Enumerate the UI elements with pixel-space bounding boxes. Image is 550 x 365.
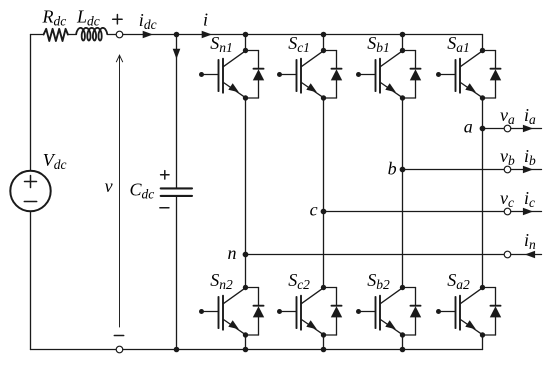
wire leg b middle [402, 98, 404, 288]
IGBT c1 emitter arrow [306, 83, 317, 92]
node emitter a2 [480, 332, 485, 337]
wire top-left corner to resistor [31, 34, 44, 36]
IGBT a1 gate bar [455, 60, 457, 91]
svg-text:n: n [228, 243, 237, 263]
current arrow i_b [523, 166, 533, 174]
IGBT b1 gate bar [375, 60, 377, 91]
IGBT b1 emitter lead [380, 82, 402, 97]
IGBT b1 gate wire [359, 74, 376, 76]
junction top bus / capacitor [174, 32, 180, 38]
wire leg c top stub [323, 35, 325, 51]
IGBT c2 gate terminal dot [277, 309, 282, 314]
node collector a1 [480, 48, 485, 53]
IGBT a2 gate terminal dot [436, 309, 441, 314]
svg-text:b: b [388, 159, 397, 179]
inductor L_dc [76, 28, 107, 41]
node emitter c1 [321, 95, 326, 100]
IGBT n1 gate terminal dot [199, 72, 204, 77]
IGBT c1 collector lead [301, 51, 323, 67]
junction bottom bus / capacitor [174, 347, 180, 353]
IGBT b1 collector lead [380, 51, 402, 67]
label + at dc terminal [113, 18, 122, 20]
IGBT a1 gate wire [439, 74, 456, 76]
diode wire n2 [246, 287, 259, 289]
node collector b2 [400, 285, 405, 290]
wire leg c middle [323, 98, 325, 288]
label - at capacitor [160, 207, 169, 209]
IGBT c1 gate bar [296, 60, 298, 91]
label + at capacitor [161, 174, 169, 176]
node emitter b2 [400, 332, 405, 337]
IGBT n2 gate terminal dot [199, 309, 204, 314]
diode c2 [331, 306, 342, 317]
node collector c2 [321, 285, 326, 290]
diode wire b2 [403, 287, 416, 289]
wire leg a bottom stub [482, 335, 484, 350]
current arrow i_a [523, 125, 533, 133]
svg-text:a: a [464, 117, 473, 137]
wire left rail lower [30, 211, 32, 349]
terminal n [504, 251, 511, 258]
IGBT n2 emitter lead [223, 319, 245, 334]
IGBT n2 collector lead [223, 288, 245, 304]
IGBT n1 body bar [222, 59, 224, 93]
IGBT a1 gate terminal dot [436, 72, 441, 77]
IGBT b1 emitter arrow [385, 83, 396, 92]
wire leg n top stub [245, 35, 247, 51]
diode b2 cathode bar [411, 305, 421, 307]
junction top bus / leg b [400, 32, 406, 38]
node emitter n1 [243, 95, 248, 100]
IGBT c1 emitter lead [301, 82, 323, 97]
svg-text:c: c [310, 200, 318, 220]
wire inductor to + terminal [107, 34, 116, 36]
IGBT c2 emitter lead [301, 319, 323, 334]
IGBT a2 collector lead [460, 288, 482, 304]
IGBT a1 emitter lead [460, 82, 482, 97]
voltage arrow v [119, 55, 121, 327]
IGBT c1 gate terminal dot [277, 72, 282, 77]
label - at dc minus terminal [114, 335, 123, 337]
node collector a2 [480, 285, 485, 290]
node collector n2 [243, 285, 248, 290]
diode n1 cathode bar [254, 68, 264, 70]
diode a2 cathode bar [491, 305, 501, 307]
current arrow i_n [525, 251, 535, 259]
IGBT a2 body bar [459, 296, 461, 330]
IGBT c2 body bar [300, 296, 302, 330]
wire leg a middle [482, 98, 484, 288]
wire leg b bottom stub [402, 335, 404, 350]
node emitter a1 [480, 95, 485, 100]
junction bottom bus / leg c [321, 347, 327, 353]
wire neutral output [246, 254, 505, 256]
wire phase a output [483, 128, 505, 130]
wire phase b terminal lead [511, 169, 542, 171]
wire capacitor branch upper [176, 35, 178, 188]
current arrow i_dc [143, 31, 153, 39]
junction bottom bus / leg b [400, 347, 406, 353]
current arrow i [202, 31, 212, 39]
IGBT a1 emitter arrow [465, 83, 476, 92]
terminal a [504, 125, 511, 132]
wire leg c bottom stub [323, 335, 325, 350]
node emitter c2 [321, 332, 326, 337]
diode c1 [331, 69, 342, 80]
IGBT b2 emitter lead [380, 319, 402, 334]
IGBT n1 emitter arrow [228, 83, 239, 92]
label - inside source [24, 201, 36, 203]
IGBT n2 gate bar [218, 297, 220, 328]
IGBT n1 gate bar [218, 60, 220, 91]
diode a2 [490, 306, 501, 317]
wire phase b output [403, 169, 505, 171]
node collector b1 [400, 48, 405, 53]
IGBT n1 gate wire [202, 74, 219, 76]
IGBT n2 body bar [222, 296, 224, 330]
diode wire c1 [324, 50, 337, 52]
diode wire a1 [483, 50, 496, 52]
diode n1 [253, 69, 264, 80]
wire top bus [177, 34, 483, 36]
dc-link - terminal [116, 346, 123, 353]
IGBT n1 collector lead [223, 51, 245, 67]
node emitter b1 [400, 95, 405, 100]
wire leg b top stub [402, 35, 404, 51]
wire terminal to node i [123, 34, 177, 36]
IGBT n2 emitter arrow [228, 320, 239, 329]
wire leg a top stub [482, 35, 484, 51]
IGBT b2 gate wire [359, 311, 376, 313]
diode c1 cathode bar [332, 68, 342, 70]
capacitor current arrow [173, 49, 181, 59]
diode b1 [410, 69, 421, 80]
diode a1 [490, 69, 501, 80]
IGBT a1 body bar [459, 59, 461, 93]
current arrow i_c [523, 208, 533, 216]
dc-link + terminal [116, 31, 123, 38]
resistor R_dc [44, 29, 68, 41]
node collector n1 [243, 48, 248, 53]
IGBT a2 gate wire [439, 311, 456, 313]
diode b1 cathode bar [411, 68, 421, 70]
IGBT n2 gate wire [202, 311, 219, 313]
node collector c1 [321, 48, 326, 53]
node c [321, 209, 327, 215]
label + inside source [25, 181, 37, 183]
diode wire n1 [246, 50, 259, 52]
IGBT a1 collector lead [460, 51, 482, 67]
wire left rail upper [30, 35, 32, 171]
diode c2 cathode bar [332, 305, 342, 307]
IGBT n1 emitter lead [223, 82, 245, 97]
wire phase c terminal lead [511, 211, 542, 213]
wire leg n bottom stub [245, 335, 247, 350]
svg-text:v: v [105, 176, 113, 196]
IGBT b2 emitter arrow [385, 320, 396, 329]
diode a1 cathode bar [491, 68, 501, 70]
node emitter n2 [243, 332, 248, 337]
junction bottom bus / leg n [243, 347, 249, 353]
IGBT a2 emitter arrow [465, 320, 476, 329]
wire bottom bus left [31, 349, 117, 351]
wire leg n middle [245, 98, 247, 288]
IGBT b2 gate terminal dot [356, 309, 361, 314]
terminal c [504, 208, 511, 215]
IGBT c1 gate wire [280, 74, 297, 76]
IGBT c2 gate wire [280, 311, 297, 313]
junction top bus / leg n [243, 32, 249, 38]
voltage source V_dc [10, 171, 50, 211]
IGBT a2 gate bar [455, 297, 457, 328]
IGBT b2 body bar [379, 296, 381, 330]
diode n2 [253, 306, 264, 317]
IGBT c2 emitter arrow [306, 320, 317, 329]
node b [400, 167, 406, 173]
IGBT c2 gate bar [296, 297, 298, 328]
svg-text:i: i [203, 9, 208, 29]
diode n2 cathode bar [254, 305, 264, 307]
IGBT b1 body bar [379, 59, 381, 93]
diode wire b1 [403, 50, 416, 52]
diode wire a2 [483, 287, 496, 289]
diode b2 [410, 306, 421, 317]
node n [243, 252, 249, 258]
wire bottom bus right [123, 349, 483, 351]
junction top bus / leg c [321, 32, 327, 38]
IGBT b1 gate terminal dot [356, 72, 361, 77]
wire phase a terminal lead [511, 128, 542, 130]
wire resistor to inductor [68, 34, 77, 36]
IGBT a2 emitter lead [460, 319, 482, 334]
capacitor C_dc plates [161, 187, 192, 189]
wire capacitor branch lower [176, 197, 178, 350]
IGBT c1 body bar [300, 59, 302, 93]
IGBT b2 gate bar [375, 297, 377, 328]
IGBT b2 collector lead [380, 288, 402, 304]
wire neutral terminal lead [511, 254, 542, 256]
IGBT c2 collector lead [301, 288, 323, 304]
node a [480, 126, 486, 132]
diode wire c2 [324, 287, 337, 289]
terminal b [504, 166, 511, 173]
wire phase c output [324, 211, 505, 213]
